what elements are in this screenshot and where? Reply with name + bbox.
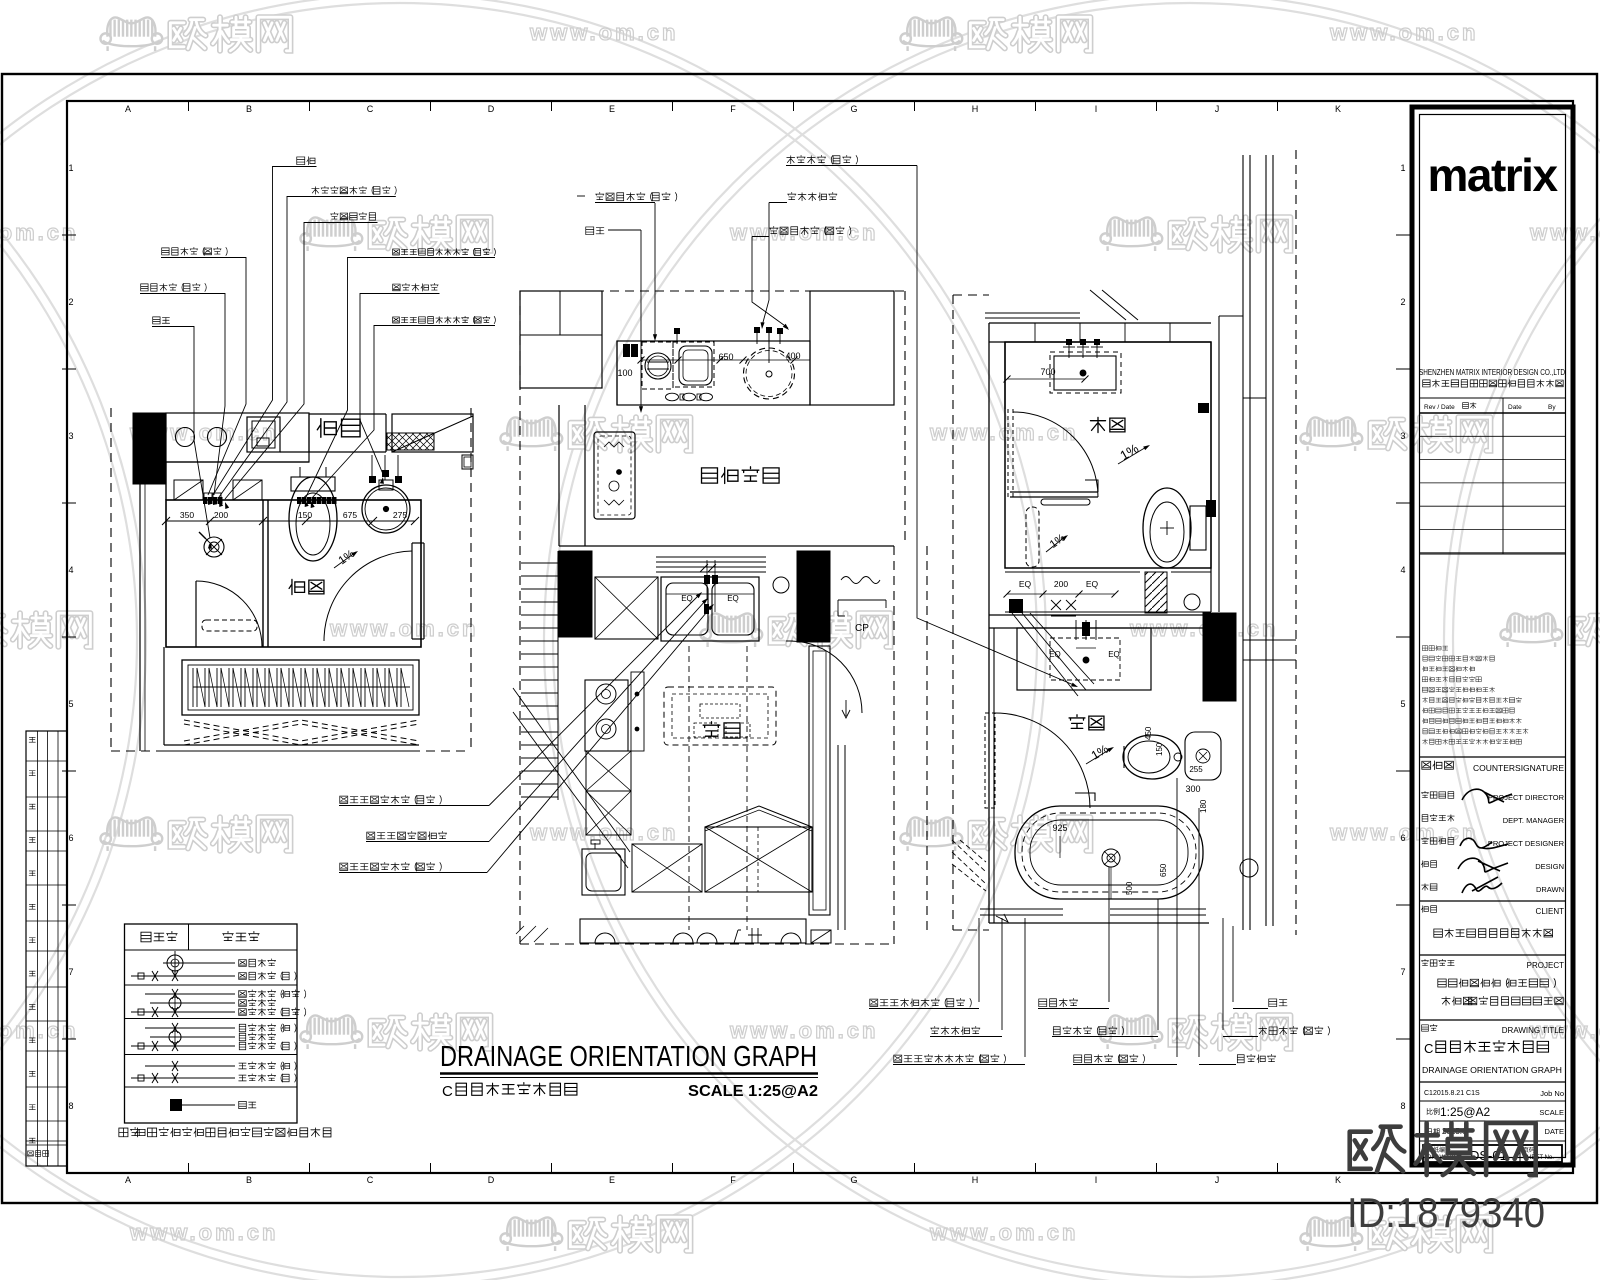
company name cn [1423,380,1430,387]
svg-text:ID:1879340: ID:1879340 [1347,1189,1545,1236]
cluster3 master toilet [1123,735,1182,779]
svg-text:1:25@A2: 1:25@A2 [1440,1105,1491,1119]
cluster3 leader verticals down [979,778,1233,1057]
cluster2 island dashed [664,646,776,930]
cluster3 bathtub [1015,806,1203,899]
cluster2 top-left block [520,291,602,388]
cluster2 washer disposal circle [642,342,673,389]
cluster1 round basin [362,480,410,533]
svg-text:450: 450 [1144,726,1153,740]
leader label inwall shower hot [311,316,496,508]
svg-text:3: 3 [1400,431,1405,441]
svg-text:4: 4 [1400,565,1405,575]
cluster2 hob [585,672,644,751]
title block outer thick border [1412,107,1573,1165]
cluster3 master door [985,713,1090,808]
cluster2 kitchen black wall left [559,551,592,637]
svg-text:F: F [730,104,736,114]
signature row DRAWN [1422,877,1564,894]
svg-text:J: J [1215,1175,1220,1185]
svg-text:2: 2 [1400,297,1405,307]
svg-text:1: 1 [1400,163,1405,173]
svg-text:K: K [1335,104,1341,114]
svg-text:EQ: EQ [1019,579,1032,589]
svg-text:675: 675 [343,510,357,520]
cluster3 master black wall [1203,613,1236,701]
svg-text:DRAWING TITLE: DRAWING TITLE [1502,1026,1564,1035]
svg-text:K: K [1335,1175,1341,1185]
cluster1 fixtures row small cabinets [174,480,262,500]
cluster1 closet top right [392,414,473,469]
cluster3 partition [1010,480,1098,505]
ruler letters top [125,101,1341,114]
svg-text:700: 700 [1040,367,1055,377]
ruler numbers right [1396,163,1410,1111]
cluster3 dim 300 [1185,784,1208,813]
room label 厨房 [703,722,720,736]
legend row 9 [145,1061,296,1071]
cluster2 bottom single sink [582,840,625,895]
legend table frame [125,924,298,1123]
svg-text:D: D [488,1175,495,1185]
drawing number box [1420,1141,1566,1163]
border frame inner [67,101,1573,1173]
svg-text:matrix: matrix [1427,149,1558,201]
cluster2 corner counter [705,806,812,892]
cluster1 door arc right [324,543,424,641]
leader label c3 b2c [1223,1026,1330,1036]
cluster2 base cabinets X [586,751,631,835]
job no row [1420,1082,1566,1098]
svg-text:Rev / Date: Rev / Date [1424,404,1455,411]
svg-text:4: 4 [68,565,73,575]
leader label purified hot [339,604,714,873]
svg-text:www.om.cn: www.om.cn [1329,20,1478,45]
leader label dingpen [213,157,317,505]
countersignature header [1420,757,1566,773]
signature row DEPT. MANAGER [1422,814,1564,825]
svg-text:2: 2 [68,297,73,307]
svg-text:SCALE 1:25@A2: SCALE 1:25@A2 [688,1083,818,1100]
leader label washer cold [577,192,677,341]
cluster1 door arc left [196,581,262,647]
room label 生活阳台 [702,468,718,483]
signature row PROJECT DIRECTOR [1421,789,1564,803]
leader label hand shower cold [219,186,396,507]
date row [1420,1121,1566,1136]
cluster1 slope 1% [334,548,358,568]
cluster3 top wall mullions [1035,323,1170,342]
legend row 2 [131,971,296,981]
cluster2 bottom band [580,919,831,943]
cluster1 unit dashed boundary [111,408,471,751]
cluster3 master slope [1086,742,1114,764]
cluster3 linen diagonals [952,840,986,891]
cluster1 toilet [289,467,337,561]
title block notes [1422,645,1528,744]
svg-text:200: 200 [1054,579,1068,589]
svg-text:www.om.cn: www.om.cn [729,1018,878,1043]
svg-text:A: A [125,104,131,114]
cluster3 right wall black bit [1206,500,1216,517]
big watermark text 欧模网 [1350,1127,1405,1172]
svg-text:J: J [1215,104,1220,114]
cluster3 sink taps [1063,339,1103,376]
svg-text:DESIGN: DESIGN [1535,862,1564,871]
svg-text:6: 6 [1400,833,1405,843]
cluster1 shaft room walls [280,414,386,452]
svg-text:300: 300 [1185,784,1200,794]
svg-text:By: By [1548,404,1556,411]
svg-text:650: 650 [1159,863,1168,877]
leader label c3 b3b [1073,1054,1177,1064]
svg-text:COUNTERSIGNATURE: COUNTERSIGNATURE [1473,763,1564,773]
drawing title row [1420,1020,1566,1075]
svg-text:255: 255 [1189,765,1203,774]
svg-text:A: A [125,1175,131,1185]
cluster3 black square [1009,599,1023,613]
cluster2 right pilaster [809,646,850,930]
cluster3 master sink taps [1076,620,1096,663]
revision table [1420,398,1566,554]
svg-text:C12015.8.21 C1S: C12015.8.21 C1S [1424,1090,1480,1097]
leader label c3 b2b [1052,1026,1158,1036]
svg-text:DRAINAGE ORIENTATION GRAPH: DRAINAGE ORIENTATION GRAPH [440,1041,817,1073]
svg-text:6: 6 [68,833,73,843]
svg-text:E: E [609,1175,615,1185]
cluster3 master sink cabinet [1017,628,1151,690]
cluster1 crosshatch wall [387,433,434,450]
svg-text:Date: Date [1508,404,1522,411]
svg-text:B: B [246,1175,252,1185]
cluster2 dim line [638,357,811,364]
svg-text:500: 500 [1125,881,1134,895]
cluster2 round basin [744,348,795,399]
cluster3 wall bits black [1198,403,1209,413]
svg-text:I: I [1095,1175,1098,1185]
leader label basin drain2 [761,192,837,329]
svg-text:5: 5 [68,699,73,709]
legend row 1 [163,951,276,975]
svg-text:C: C [442,1083,453,1100]
leader label floor drain balcony [586,227,643,413]
cluster2 water heater [594,432,635,519]
cluster1 wall valves [203,497,337,504]
cluster3 grab bar2 [1075,793,1095,801]
svg-text:925: 925 [1052,823,1067,833]
leader label purified cold [339,592,702,806]
svg-text:CLIENT: CLIENT [1536,907,1565,916]
svg-text:E: E [609,104,615,114]
svg-text:PROJECT DIRECTOR: PROJECT DIRECTOR [1488,793,1565,802]
cluster3 master toilet dims [1144,726,1203,774]
cluster1 towel bar [202,620,257,631]
cluster2 right block [810,291,894,405]
cluster2 drain circle [773,577,789,593]
svg-text:B: B [246,104,252,114]
svg-text:DRAINAGE ORIENTATION GRAPH: DRAINAGE ORIENTATION GRAPH [1422,1065,1562,1075]
leader label washer hot [752,226,851,330]
leader label purifier drain [366,598,708,842]
main title chinese [442,1083,577,1100]
legend row 4 [150,994,276,1012]
leader label c3 b3a [893,1054,1025,1064]
cluster3 leader crossing diagonals [1012,613,1094,696]
cluster2 CP cloud [838,577,886,635]
cluster3 shower taps bottom [1051,600,1076,616]
cluster3 lower wall lines [1005,572,1211,612]
cluster3 corridor circle [1240,859,1258,877]
cluster3 EQ dims [1004,579,1119,598]
room label 公卫 [1090,417,1105,432]
svg-text:EQ: EQ [727,594,739,603]
cluster3 tub dims [1052,823,1168,899]
title block inner border [1420,115,1566,1158]
legend note [119,1128,128,1137]
svg-text:H: H [972,104,979,114]
svg-text:1: 1 [68,163,73,173]
room label 主卫 [1069,715,1085,729]
cluster3 shower corner [1185,732,1221,780]
cluster2 sink [673,342,714,387]
leader label shower cold [140,283,225,505]
cluster2 door arc bottom right [786,641,862,713]
svg-text:C: C [367,1175,374,1185]
svg-text:180: 180 [1199,799,1208,813]
cluster1 wall black fill left [133,413,166,484]
svg-text:150: 150 [1155,742,1164,756]
legend row 6 [145,1023,296,1033]
cluster1 room walls [140,462,421,751]
cluster2 kitchen black wall right [797,551,830,642]
legend row 7 [150,1028,276,1046]
room label 次卫 [289,579,304,594]
svg-text:EQ: EQ [1086,579,1099,589]
svg-text:C: C [367,104,374,114]
svg-text:SHENZHEN MATRIX INTERIOR DESIG: SHENZHEN MATRIX INTERIOR DESIGN CO.,LTD [1419,368,1565,377]
cluster3 sink counter [1050,352,1121,393]
svg-text:400: 400 [785,351,800,361]
cluster2 sink taps cluster [700,560,718,614]
scale row [1420,1101,1566,1119]
svg-text:www.om.cn: www.om.cn [1529,220,1600,245]
svg-text:DRAWN: DRAWN [1536,885,1564,894]
cluster3 slope 1% [1117,440,1150,464]
cluster3 tub dashed capsule [1026,507,1039,567]
cluster3 master bottom [980,909,1209,923]
dim 700 [1004,367,1089,383]
svg-text:DEPT. MANAGER: DEPT. MANAGER [1503,816,1565,825]
cluster2 counter black sockets [623,344,638,357]
cluster2 kitchen counter band [617,341,810,405]
svg-text:F: F [730,1175,736,1185]
leader label c3 b2a [930,1026,1002,1036]
svg-text:www.om.cn: www.om.cn [329,616,478,641]
legend row 10 [131,1073,296,1083]
svg-text:7: 7 [68,967,73,977]
cluster1 top counter with two basins [166,413,309,462]
leader label mixer [225,212,378,509]
svg-text:3: 3 [68,431,73,441]
project row [1420,955,1566,1005]
svg-text:5: 5 [1400,699,1405,709]
legend row 5 [131,1007,306,1017]
signature row DESIGN [1421,858,1564,872]
room label 电井 [317,419,336,437]
svg-text:7: 7 [1400,967,1405,977]
svg-text:H: H [972,1175,979,1185]
svg-text:200: 200 [214,510,228,520]
balcony dashed counter edge [617,404,894,406]
cluster1 wardrobe louver [182,660,419,715]
cluster3 floor drain circle [1184,594,1200,610]
cluster1 appliance box [247,417,280,452]
cluster2 dashed boundary [520,291,927,944]
cluster3 top wall [985,290,1211,497]
svg-text:650: 650 [718,352,733,362]
cluster2 balcony left wall [559,405,894,546]
cluster2 double sink [661,577,759,641]
legend row 3 [145,989,306,999]
svg-text:G: G [850,104,857,114]
ruler letters bottom [125,1163,1341,1185]
ruler numbers left [62,163,76,1111]
cluster2 stairs [513,551,630,942]
cluster3 public bath walls [1005,342,1211,568]
cluster2 knobs [666,393,713,401]
cluster1 chevron dashed [184,720,419,745]
cluster2 counter taps [674,327,783,363]
svg-text:C: C [1424,1041,1433,1056]
cluster3 slope2 [1046,532,1068,552]
cluster1 dimension row [162,510,419,525]
client row [1420,901,1566,937]
svg-text:EQ: EQ [1108,650,1120,659]
svg-text:EQ: EQ [681,594,693,603]
cluster3 bottom hatch [1145,572,1167,613]
legend row 11 [170,1099,256,1111]
svg-text:350: 350 [180,510,194,520]
svg-text:PROJECT: PROJECT [1527,961,1564,970]
cluster2 bottom X cabinet [632,844,702,892]
svg-text:I: I [1095,104,1098,114]
left revision strip table [26,731,67,1166]
cluster3 master top wall [989,497,1203,923]
leader label floor drain [152,317,212,549]
svg-text:CP: CP [855,623,869,634]
cluster3 toilet [1143,488,1206,568]
svg-text:www.om.cn: www.om.cn [929,1220,1078,1245]
leader label inwall shower cold [305,248,496,507]
cluster1 bottom wall [164,745,419,751]
cluster3 dashed boundary [953,150,1296,935]
svg-text:比例: 比例 [1426,1107,1440,1116]
svg-text:www.om.cn: www.om.cn [129,1220,278,1245]
legend row 8 [131,1041,296,1051]
svg-text:Job No: Job No [1540,1089,1564,1098]
leader label shower hot [161,247,246,505]
svg-text:www.om.cn: www.om.cn [529,820,678,845]
cluster3 tub drain [1102,849,1120,867]
svg-text:8: 8 [1400,1101,1405,1111]
svg-text:275: 275 [393,510,407,520]
svg-text:D: D [488,104,495,114]
legend header [141,931,259,941]
leader label c3 b1b [1038,998,1109,1008]
leader label c3 b1c [1233,999,1287,1009]
svg-text:100: 100 [617,368,632,378]
leader label c3 b3c [1199,1054,1276,1064]
svg-text:www.om.cn: www.om.cn [729,220,878,245]
leader label sink drain cold [786,155,1078,687]
signature row PROJECT DESIGNER [1421,837,1564,848]
svg-text:150: 150 [298,510,312,520]
svg-text:DATE: DATE [1545,1127,1564,1136]
cluster2 left X cabinet [595,577,658,639]
leader label basin drain [360,283,440,484]
cluster1 tap symbols [369,455,402,483]
cluster1 shower drain [199,532,224,557]
svg-text:SCALE: SCALE [1539,1108,1564,1117]
cluster3 corridor verticals [1211,155,1296,930]
svg-text:8: 8 [68,1101,73,1111]
leader label c3 b1a [869,998,979,1008]
cluster3 door arc [1008,409,1098,497]
main title underline [440,1074,818,1078]
svg-text:www.om.cn: www.om.cn [529,20,678,45]
svg-text:G: G [850,1175,857,1185]
cluster2 window lines [656,557,766,572]
